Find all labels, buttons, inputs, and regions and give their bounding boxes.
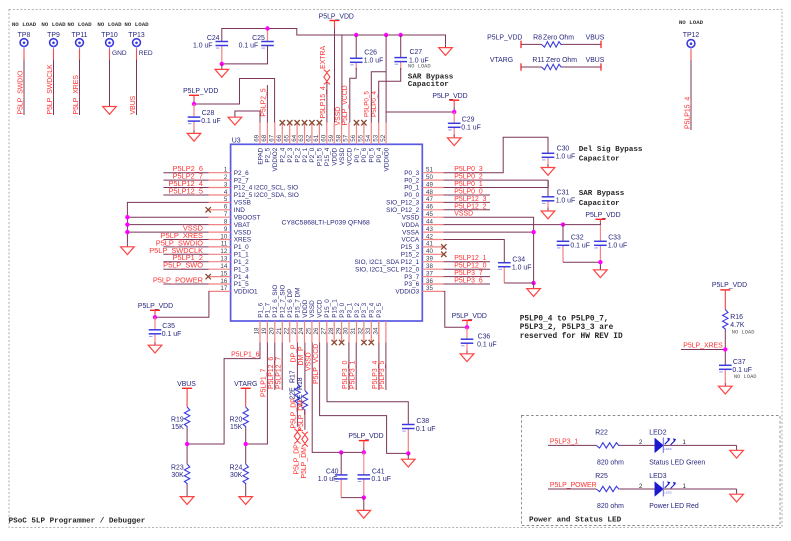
wire R16 to P5LP_XRES node xyxy=(724,330,726,365)
svg-text:58: 58 xyxy=(335,134,342,141)
svg-text:SAR Bypass: SAR Bypass xyxy=(408,73,454,81)
svg-text:P3_7: P3_7 xyxy=(404,274,419,281)
svg-text:P15_4: P15_4 xyxy=(324,147,331,166)
svg-text:VDDIO0: VDDIO0 xyxy=(383,147,390,171)
ground C40 C41 xyxy=(363,498,365,511)
ground left bus xyxy=(121,244,135,255)
svg-text:0.1 uF: 0.1 uF xyxy=(162,331,182,338)
svg-text:22: 22 xyxy=(283,327,290,334)
svg-text:C34: C34 xyxy=(512,257,525,264)
junction C41 top xyxy=(362,450,366,454)
capacitor C28 xyxy=(188,104,221,131)
svg-text:P2_1: P2_1 xyxy=(302,147,309,162)
resistor R23 xyxy=(171,464,190,485)
svg-text:VSSD: VSSD xyxy=(306,352,313,371)
pin 15 P1_4 xyxy=(209,270,250,280)
pin 52 VDDIO0 xyxy=(380,123,391,172)
svg-text:R25: R25 xyxy=(595,473,608,480)
ground rail xyxy=(533,283,535,289)
pin 50 P0_2 xyxy=(404,174,443,184)
wire VDDIO0 to P5LP_VDD right xyxy=(386,111,454,113)
pin 62 P2_0 xyxy=(306,123,317,163)
svg-text:60: 60 xyxy=(321,134,328,141)
svg-text:P5LP12_6: P5LP12_6 xyxy=(268,357,275,389)
svg-text:36: 36 xyxy=(426,278,433,285)
text Del Sig Bypass Capacitor xyxy=(579,146,643,164)
svg-text:51: 51 xyxy=(426,167,433,174)
svg-text:P5LP3_1: P5LP3_1 xyxy=(350,360,357,389)
svg-text:R16: R16 xyxy=(730,314,743,321)
svg-text:62: 62 xyxy=(306,134,313,141)
wire R20 to R24 xyxy=(245,428,247,465)
svg-text:1: 1 xyxy=(224,167,228,174)
wire R25 to LED3 xyxy=(620,484,655,490)
svg-text:CY8C5868LTI-LP039 QFN68: CY8C5868LTI-LP039 QFN68 xyxy=(282,219,370,226)
svg-text:LEDS: LEDS xyxy=(664,491,671,495)
svg-text:16: 16 xyxy=(220,278,227,285)
svg-text:P5LP3_5: P5LP3_5 xyxy=(379,360,386,389)
svg-text:P0_6: P0_6 xyxy=(361,147,368,162)
svg-text:29: 29 xyxy=(335,327,342,334)
off-page connector EXTRA xyxy=(324,70,330,85)
pin 60 P15_4 xyxy=(321,123,332,167)
pin 8 VBAT xyxy=(209,218,251,228)
svg-text:37: 37 xyxy=(426,270,433,277)
pin 63 P2_1 xyxy=(298,123,309,163)
svg-text:P3_0: P3_0 xyxy=(339,302,346,317)
svg-text:P5LP3_1: P5LP3_1 xyxy=(550,438,579,445)
wire VSSD pin 9 label xyxy=(183,224,203,233)
svg-text:1.0 uF: 1.0 uF xyxy=(556,153,576,160)
svg-text:P5LP3_4: P5LP3_4 xyxy=(372,360,379,389)
svg-text:54: 54 xyxy=(365,134,372,141)
test point TP10 xyxy=(97,21,127,57)
svg-text:P5LP_VDD: P5LP_VDD xyxy=(487,34,522,41)
svg-text:1.0 uF: 1.0 uF xyxy=(193,43,213,50)
wire P5LP_POWER pin 16 xyxy=(153,276,209,285)
pin 40 P15_2 xyxy=(401,248,444,258)
pin 29 P3_0 xyxy=(335,302,346,342)
ground R24 xyxy=(239,497,253,505)
resistor R11 Zero Ohm row xyxy=(490,57,605,71)
svg-text:C28: C28 xyxy=(202,110,215,117)
no-connect X pin 66 xyxy=(280,120,285,125)
no-connect X pin 40 xyxy=(441,252,446,257)
svg-text:61: 61 xyxy=(313,134,320,141)
svg-text:P1_2: P1_2 xyxy=(234,259,249,266)
no-connect X pin 15 xyxy=(206,274,211,279)
pin 41 P15_3 xyxy=(401,241,444,251)
wire LED2 to ground xyxy=(663,440,736,450)
pin 20 P12_6_SIO xyxy=(269,285,280,343)
svg-text:P5LP3_0: P5LP3_0 xyxy=(342,360,349,389)
no-connect X pin 61 xyxy=(317,120,322,125)
svg-text:65: 65 xyxy=(283,134,290,141)
svg-text:Zero Ohm: Zero Ohm xyxy=(543,34,574,41)
svg-text:Status LED Green: Status LED Green xyxy=(649,459,705,466)
svg-text:DM_P: DM_P xyxy=(298,346,305,366)
svg-text:P12_4 I2C0_SCL, SIO: P12_4 I2C0_SCL, SIO xyxy=(234,185,298,192)
box Power and Status LED xyxy=(522,416,781,526)
svg-text:NO LOAD: NO LOAD xyxy=(97,21,122,28)
svg-text:NO LOAD: NO LOAD xyxy=(67,21,92,28)
svg-text:LEDS: LEDS xyxy=(664,447,671,451)
ground R23 xyxy=(180,497,194,505)
no-connect X pin 63 xyxy=(302,120,307,125)
svg-text:P2_6: P2_6 xyxy=(234,170,249,177)
svg-text:LED3: LED3 xyxy=(649,473,666,480)
capacitor C37 xyxy=(719,359,757,383)
wire P5LP3_1 xyxy=(350,343,357,391)
pin 17 VDDIO1 xyxy=(209,285,259,295)
pin 57 VCCD xyxy=(343,123,354,166)
wire EPAD to ground xyxy=(235,111,260,123)
wire P5LP12_6 pin 20 xyxy=(268,343,275,391)
svg-text:U3: U3 xyxy=(232,137,241,144)
svg-text:NO LOAD: NO LOAD xyxy=(41,21,66,28)
svg-text:22E: 22E xyxy=(290,387,297,400)
capacitor C31 xyxy=(542,180,576,209)
test point TP11 xyxy=(67,21,92,50)
svg-text:41: 41 xyxy=(426,241,433,248)
power symbol VTARG divider xyxy=(241,387,251,389)
test point TP13 xyxy=(124,21,153,57)
svg-text:reserved for HW REV ID: reserved for HW REV ID xyxy=(520,333,623,341)
svg-text:P0_4: P0_4 xyxy=(376,147,383,162)
wire P5LP12_5 pin 4 xyxy=(163,187,208,196)
pin 35 VDDIO3 xyxy=(395,285,443,295)
svg-text:64: 64 xyxy=(291,134,298,141)
svg-text:P1_3: P1_3 xyxy=(234,266,249,273)
svg-text:SIO, I2C1_SDA P12_1: SIO, I2C1_SDA P12_1 xyxy=(355,259,420,266)
wire DP_P pin 22 xyxy=(291,343,298,384)
svg-text:VTARG: VTARG xyxy=(490,57,513,64)
svg-text:C40: C40 xyxy=(326,468,339,475)
pin 39 SIO, I2C1_SDA P12_1 xyxy=(355,256,444,266)
svg-text:P5LP12_2: P5LP12_2 xyxy=(454,203,486,210)
wire top P5LP_VDD bus xyxy=(222,29,446,45)
svg-text:XRES: XRES xyxy=(234,237,251,244)
svg-text:33: 33 xyxy=(365,327,372,334)
ground C24 xyxy=(215,64,229,77)
capacitor C36 xyxy=(461,327,497,351)
svg-text:P3_6: P3_6 xyxy=(404,281,419,288)
svg-text:59: 59 xyxy=(328,134,335,141)
pin 9 VSSD xyxy=(209,226,252,236)
svg-text:8: 8 xyxy=(224,218,228,225)
svg-text:27: 27 xyxy=(321,327,328,334)
svg-text:NO LOAD: NO LOAD xyxy=(732,329,755,335)
no-connect X bottom pin xyxy=(332,340,337,345)
svg-text:VDDIO2: VDDIO2 xyxy=(272,147,279,171)
pin 28 P15_1 xyxy=(328,299,339,343)
pin 26 VCCD xyxy=(313,299,324,342)
svg-text:IND: IND xyxy=(234,207,245,214)
test point TP9 xyxy=(41,21,66,50)
svg-text:R23: R23 xyxy=(171,464,184,471)
pin 32 P3_3 xyxy=(358,302,369,342)
svg-text:7: 7 xyxy=(224,211,228,218)
svg-text:P2_0: P2_0 xyxy=(309,147,316,162)
junction C29 top xyxy=(452,110,456,114)
svg-text:C29: C29 xyxy=(462,117,475,124)
pin 59 VDDD xyxy=(328,123,339,166)
pin 55 P0_6 xyxy=(358,123,369,163)
svg-text:2: 2 xyxy=(224,174,228,181)
svg-text:32: 32 xyxy=(358,327,365,334)
wire DM_P pin 23 xyxy=(298,343,305,391)
wire C26 to VCCD pin 57 xyxy=(342,68,356,126)
capacitor C38 xyxy=(402,418,435,453)
capacitor C29 xyxy=(448,112,481,135)
svg-text:VSSD: VSSD xyxy=(402,214,420,221)
ground TP10 xyxy=(103,103,117,114)
pin 21 P12_7_SIO xyxy=(276,285,287,343)
svg-text:49: 49 xyxy=(426,181,433,188)
svg-text:20: 20 xyxy=(269,327,276,334)
capacitor C32 xyxy=(557,225,590,263)
svg-text:RED: RED xyxy=(139,50,153,57)
svg-text:6: 6 xyxy=(224,204,228,211)
svg-text:12: 12 xyxy=(220,248,227,255)
svg-text:0.1 uF: 0.1 uF xyxy=(570,242,590,249)
svg-text:C30: C30 xyxy=(557,146,570,153)
svg-text:GND: GND xyxy=(112,50,127,57)
svg-text:0.1 uF: 0.1 uF xyxy=(371,476,391,483)
wire P5LP12_4 pin 3 xyxy=(163,179,208,188)
wire P5LP_SWDCLK xyxy=(47,49,54,115)
wire VDDIO0 pin 52 xyxy=(385,35,387,123)
svg-text:EPAD: EPAD xyxy=(257,147,264,164)
svg-text:P2_7: P2_7 xyxy=(234,177,249,184)
svg-text:P5LP0_3: P5LP0_3 xyxy=(454,166,483,173)
chip U3 body CY8C5868LTI-LP039 xyxy=(231,137,423,321)
wire R18 to off-page P5LP_DM xyxy=(298,400,305,432)
off-page connector P5LP_DM xyxy=(301,432,308,479)
svg-text:NO LOAD: NO LOAD xyxy=(679,19,704,26)
pin 12 P1_1 xyxy=(209,248,250,258)
svg-text:P0_2: P0_2 xyxy=(404,177,419,184)
wire P5LP12_0 xyxy=(444,263,491,270)
svg-text:P2_4: P2_4 xyxy=(280,147,287,162)
svg-text:5: 5 xyxy=(224,196,228,203)
wire VDDIO2 feed xyxy=(194,79,275,123)
svg-text:P15_0: P15_0 xyxy=(324,299,331,318)
wire P5LP3_7 xyxy=(444,270,491,277)
wire VDDIO1 to P5LP_VDD xyxy=(155,291,209,317)
wire P5LP12_7 pin 21 xyxy=(276,343,283,391)
wire VSSD pin 45 rail xyxy=(444,211,534,283)
wire C32 C33 bottom xyxy=(563,262,600,268)
svg-text:1.0 uF: 1.0 uF xyxy=(556,198,576,205)
junction C25 top xyxy=(265,26,269,30)
svg-text:VDDD: VDDD xyxy=(302,299,309,317)
pin 38 SIO, I2C1_SCL P12_0 xyxy=(355,263,443,273)
wire C34 bottom to rail xyxy=(504,282,533,284)
wire C40 C41 bottom xyxy=(341,497,364,499)
wire P5LP12_2 xyxy=(444,203,491,210)
svg-text:Del Sig Bypass: Del Sig Bypass xyxy=(579,146,643,154)
pin 5 VSSB xyxy=(209,196,251,206)
ground LED3 xyxy=(730,494,744,502)
svg-text:56: 56 xyxy=(350,134,357,141)
svg-text:P15_7 DM: P15_7 DM xyxy=(294,287,301,317)
svg-text:0.1 uF: 0.1 uF xyxy=(732,367,752,374)
junction C35 top xyxy=(153,315,157,319)
pin 25 VSSD xyxy=(306,300,317,343)
svg-text:P5LP0_4: P5LP0_4 xyxy=(371,91,378,117)
junction C38 bottom xyxy=(406,451,410,455)
junction VSSD pin9 xyxy=(125,230,129,234)
ground EPAD xyxy=(228,114,242,125)
svg-text:P5LP_POWER: P5LP_POWER xyxy=(153,276,203,285)
text SAR Bypass Capacitor right xyxy=(579,190,625,208)
svg-text:0.1 uF: 0.1 uF xyxy=(239,43,259,50)
pin 18 P1_6 xyxy=(254,302,265,342)
svg-text:VSSA: VSSA xyxy=(402,229,420,236)
svg-text:P1_4: P1_4 xyxy=(234,274,249,281)
junction VSSA rail xyxy=(531,230,535,234)
svg-text:1.0 uF: 1.0 uF xyxy=(608,242,628,249)
ground C28 xyxy=(187,130,201,141)
svg-text:52: 52 xyxy=(380,134,387,141)
pin 22 P15_6 DP xyxy=(283,289,294,343)
wire stub P5LP3_5 xyxy=(385,321,387,343)
pin 10 XRES xyxy=(209,233,252,243)
resistor R22 xyxy=(595,429,624,466)
no-connect X pin 64 xyxy=(294,120,299,125)
svg-text:P0_3: P0_3 xyxy=(404,170,419,177)
svg-text:820 ohm: 820 ohm xyxy=(597,459,624,466)
junction C40 top xyxy=(339,450,343,454)
ground C31 xyxy=(541,208,555,219)
ground C38 xyxy=(402,453,416,467)
pin 46 SIO_P12_2 xyxy=(386,204,443,214)
wire VSSD pin 58 xyxy=(335,35,342,126)
svg-text:C36: C36 xyxy=(478,334,491,341)
svg-text:P5LP2_5: P5LP2_5 xyxy=(261,88,268,117)
svg-text:1.0 uF: 1.0 uF xyxy=(512,264,532,271)
wire P5LP_POWER to R25 xyxy=(548,482,597,489)
junction C24 bottom xyxy=(220,62,224,66)
no-connect X pin 41 xyxy=(441,244,446,249)
svg-text:VSSB: VSSB xyxy=(234,200,251,207)
svg-text:P5LP0_5: P5LP0_5 xyxy=(364,91,371,117)
text SAR Bypass Capacitor xyxy=(408,73,454,89)
wire P5LP1_6 pin 18 to VBUS divider xyxy=(187,343,260,445)
svg-text:19: 19 xyxy=(261,327,268,334)
wire P5LP_XRES xyxy=(73,49,80,115)
ground C32 C33 xyxy=(594,267,608,278)
capacitor C35 xyxy=(149,317,182,342)
pin 7 VBOOST xyxy=(209,211,261,221)
junction C33 bottom xyxy=(598,260,602,264)
svg-text:NO LOAD: NO LOAD xyxy=(734,374,757,380)
wire P5LP0_2 pin 50 to C31 xyxy=(444,174,549,181)
svg-text:40: 40 xyxy=(426,248,433,255)
svg-text:10: 10 xyxy=(220,233,227,240)
svg-text:P5LP_DM: P5LP_DM xyxy=(301,447,308,479)
svg-text:P1_0: P1_0 xyxy=(234,244,249,251)
ground C30 xyxy=(541,164,555,175)
pin 42 VCCA xyxy=(401,233,443,243)
svg-text:P0_0: P0_0 xyxy=(404,192,419,199)
power symbol P5LP_VDD top xyxy=(330,21,340,36)
capacitor C30 xyxy=(542,146,576,166)
svg-text:69: 69 xyxy=(254,134,261,141)
svg-text:R8: R8 xyxy=(533,34,542,41)
capacitor C40 xyxy=(318,452,348,497)
pin 54 P0_5 xyxy=(365,123,376,163)
wire VSSB VBOOST VBAT VSSD ground bus xyxy=(127,202,208,243)
svg-text:18: 18 xyxy=(254,327,261,334)
ground LED2 xyxy=(730,450,744,458)
svg-text:P5LP12_0: P5LP12_0 xyxy=(454,263,486,270)
power symbol P5LP_VDD right C29 xyxy=(449,100,459,112)
svg-text:P2_2: P2_2 xyxy=(294,147,301,162)
pin 56 P0_7 xyxy=(350,123,361,163)
junction VDDIO0 top xyxy=(384,33,388,37)
svg-text:P1_7: P1_7 xyxy=(265,302,272,317)
pin 47 SIO_P12_3 xyxy=(386,196,443,206)
pin 27 P15_0 xyxy=(321,299,332,343)
svg-text:PSoC 5LP Programmer / Debu: PSoC 5LP Programmer / Debugger xyxy=(9,518,146,526)
wire P5LP3_4 xyxy=(372,343,379,391)
svg-text:Power and Status LED: Power and Status LED xyxy=(529,517,622,525)
svg-text:P0_5: P0_5 xyxy=(369,147,376,162)
power symbol P5LP_VDD C36 xyxy=(462,320,472,327)
svg-text:P5LP15_4: P5LP15_4 xyxy=(684,97,691,129)
wire P5LP15_4 at TP12 xyxy=(684,50,691,130)
wire P5LP0_1 pin 49 xyxy=(444,180,549,188)
svg-text:15: 15 xyxy=(220,270,227,277)
svg-text:VBUS: VBUS xyxy=(586,57,605,64)
svg-text:P15_2: P15_2 xyxy=(401,252,420,259)
svg-text:R22: R22 xyxy=(595,429,608,436)
svg-text:67: 67 xyxy=(269,134,276,141)
svg-text:DP_P: DP_P xyxy=(291,344,298,362)
test point TP8 xyxy=(12,21,37,50)
svg-text:VSSD: VSSD xyxy=(234,229,252,236)
wire P5LP_SWO pin 14 xyxy=(163,261,208,270)
pin 3 P12_4 I2C0_SCL, SIO xyxy=(209,181,299,191)
svg-text:C32: C32 xyxy=(571,235,584,242)
svg-text:SIO_P12_3: SIO_P12_3 xyxy=(386,200,419,207)
svg-text:1.0 uF: 1.0 uF xyxy=(364,57,384,64)
svg-text:P5LP0_2: P5LP0_2 xyxy=(454,174,483,181)
wire EXTRA P5LP15_4 xyxy=(320,46,327,123)
svg-text:P15_6 DP: P15_6 DP xyxy=(287,289,294,318)
power symbol VBUS divider xyxy=(182,387,192,389)
wire P5LP2_6 pin 1 xyxy=(163,164,208,173)
junction C26 top xyxy=(354,33,358,37)
svg-text:15K: 15K xyxy=(230,424,243,431)
pin 4 P12_5 I2C0_SDA, SIO xyxy=(209,189,299,199)
svg-text:VBUS: VBUS xyxy=(586,34,605,41)
svg-text:R19: R19 xyxy=(171,416,184,423)
svg-text:30: 30 xyxy=(343,327,350,334)
svg-text:35: 35 xyxy=(426,285,433,292)
svg-text:P5LP_DP: P5LP_DP xyxy=(294,444,301,475)
pin 44 VDDA xyxy=(401,218,443,228)
wire VCCA pin 42 to C34 xyxy=(444,240,505,263)
capacitor C25 xyxy=(239,29,274,50)
wire R22 to LED2 xyxy=(620,440,655,446)
svg-text:4: 4 xyxy=(224,189,228,196)
svg-text:SAR Bypass: SAR Bypass xyxy=(579,190,625,198)
svg-text:TP12: TP12 xyxy=(683,32,700,39)
svg-text:23: 23 xyxy=(291,327,298,334)
